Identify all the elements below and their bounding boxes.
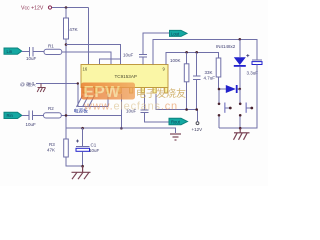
svg-text:10uF: 10uF xyxy=(123,53,134,58)
wire Lout feed xyxy=(142,57,144,65)
junction dot ground left xyxy=(81,165,84,168)
wire pin3 diagonal xyxy=(89,96,95,108)
junction dot ground rail xyxy=(239,127,242,130)
capacitor 4.7uF xyxy=(196,52,198,76)
switch SW1 bottom wire xyxy=(218,117,220,129)
terminal +12V xyxy=(196,122,199,125)
svg-text:3.3uF: 3.3uF xyxy=(247,71,259,76)
wire 100K bottom xyxy=(186,82,188,110)
resistor R3 xyxy=(64,139,69,157)
resistor R3 lead top xyxy=(65,128,67,139)
wire pin9 xyxy=(166,52,219,64)
junction dot diodes xyxy=(239,88,242,91)
resistor R2 xyxy=(44,113,62,118)
junction dot R2/47K xyxy=(65,114,68,117)
wire pin10 to right rail xyxy=(153,39,257,64)
wire 4.7uF bottom xyxy=(196,79,198,109)
ground head shield xyxy=(37,84,45,93)
svg-text:47K: 47K xyxy=(69,27,78,33)
svg-text:IN4148x2: IN4148x2 xyxy=(216,44,236,49)
capacitor 10uF top xyxy=(139,55,147,57)
junction dot diode1 top xyxy=(239,38,242,41)
connector mic input 2 xyxy=(4,112,22,118)
wire R2 to pin4 xyxy=(61,114,121,116)
svg-text:EPW: EPW xyxy=(84,84,121,101)
switch SW2 stem xyxy=(246,107,251,109)
wire Vcc down to pin16 xyxy=(88,8,90,65)
wire pin3 down xyxy=(107,94,109,107)
wire D1 bottom xyxy=(239,67,241,103)
svg-text:R1: R1 xyxy=(48,44,54,49)
svg-text:33K: 33K xyxy=(205,70,213,75)
connector out xyxy=(169,118,188,124)
wire cap to R1 xyxy=(33,51,44,53)
ground earth symbol xyxy=(170,134,181,140)
connector mic input 1 xyxy=(4,48,22,54)
junction dot 47K/branch xyxy=(65,43,68,46)
wire cap to Lout connector xyxy=(143,33,170,55)
junction dot head corner xyxy=(77,82,79,84)
capacitor 3.3uF xyxy=(252,59,262,61)
watermark EPW logo block xyxy=(81,83,135,102)
svg-text:Lout: Lout xyxy=(171,31,180,36)
capacitor C1 electrolytic xyxy=(76,145,90,147)
ground bus wire xyxy=(66,128,175,133)
capacitor C1 lead xyxy=(82,128,84,146)
switch SW1 contacts xyxy=(218,103,221,106)
resistor R1 xyxy=(44,49,62,54)
wire D2 to junction xyxy=(238,88,240,90)
svg-text:10uF: 10uF xyxy=(26,122,37,127)
svg-text:Rout: Rout xyxy=(171,120,181,125)
wire right rail down xyxy=(219,64,257,128)
terminal Vcc xyxy=(48,6,51,9)
svg-text:C1: C1 xyxy=(91,143,97,148)
capacitor 3.3uF plus sign xyxy=(246,54,249,57)
capacitor 10uF input1 xyxy=(29,47,33,57)
svg-text:www.elecfans.cn: www.elecfans.cn xyxy=(83,101,178,113)
junction dot 100K bottom xyxy=(185,108,188,111)
svg-text:@ 磁头: @ 磁头 xyxy=(20,81,36,88)
IC U1 TC9153AP xyxy=(81,65,168,88)
junction dot C1 top xyxy=(81,127,84,130)
diode D1 vertical xyxy=(239,39,241,57)
resistor 100K xyxy=(186,52,188,64)
junction dot 100K xyxy=(185,51,188,54)
junction dot 4.7uF xyxy=(195,51,198,54)
wire pin6 down xyxy=(144,94,146,110)
svg-text:R2: R2 xyxy=(48,106,54,111)
junction dot pin4/ground bus xyxy=(120,127,123,130)
svg-text:10uF: 10uF xyxy=(89,148,100,153)
wire cap to R2 xyxy=(33,114,44,116)
wire C1 bottom xyxy=(82,151,84,166)
capacitor 10uF below IC xyxy=(141,110,149,113)
svg-text:电子发烧友: 电子发烧友 xyxy=(136,87,186,100)
capacitor 10uF input2 xyxy=(29,111,33,121)
svg-text:Lin: Lin xyxy=(7,49,13,54)
wire pin15 jog xyxy=(100,59,121,65)
svg-text:Vcc +12V: Vcc +12V xyxy=(21,6,44,12)
svg-text:10uF: 10uF xyxy=(26,56,37,61)
wire pin7 to +12V xyxy=(156,94,197,122)
svg-text:+12V: +12V xyxy=(192,127,203,132)
svg-text:Rin: Rin xyxy=(7,113,14,118)
diode D2 horizontal xyxy=(226,85,238,93)
wire pin1 diagonal xyxy=(77,96,83,108)
ground C1 xyxy=(72,166,91,179)
wire branch to pin13 xyxy=(66,45,121,65)
pin stubs bottom xyxy=(83,88,168,94)
wire input2 to cap xyxy=(22,114,29,116)
wire cap to out connector xyxy=(145,113,170,122)
svg-text:100K: 100K xyxy=(170,58,181,63)
wire pin4 down xyxy=(120,94,122,128)
junction dot 4.7uF bottom xyxy=(195,108,198,111)
switch SW2 bottom wire xyxy=(239,117,241,129)
switch SW2 contacts xyxy=(239,103,242,106)
resistor 47K xyxy=(64,18,69,39)
svg-text:R3: R3 xyxy=(49,142,55,147)
wire input1 to cap xyxy=(22,51,29,53)
switch SW2 top wire xyxy=(239,89,241,103)
wire head shield xyxy=(36,84,108,107)
switch SW1 top wire xyxy=(218,89,220,103)
resistor 47K top lead xyxy=(65,8,67,19)
resistor 33K xyxy=(216,58,221,77)
wire pin2 diagonal xyxy=(83,96,89,108)
svg-text:TC9153AP: TC9153AP xyxy=(115,74,137,79)
svg-text:16: 16 xyxy=(83,67,88,72)
wire 47K bottom long vertical xyxy=(65,39,67,128)
wire 33K bottom xyxy=(219,77,226,89)
junction dot Vcc/47K xyxy=(65,6,68,9)
svg-text:4.7uF: 4.7uF xyxy=(204,76,216,81)
wire Vcc top xyxy=(52,7,89,9)
junction dot 33K/D2/SW1 xyxy=(218,88,221,91)
connector Lout xyxy=(170,30,188,36)
wire R1 to pin14 xyxy=(62,52,111,64)
switch SW2 bar xyxy=(245,103,247,113)
switch SW1 bar xyxy=(224,103,226,113)
capacitor C1 plus xyxy=(76,140,79,143)
svg-text:47K: 47K xyxy=(47,148,55,153)
switch SW1 stem xyxy=(225,107,230,109)
wire R3 bottom xyxy=(66,157,83,166)
ground switches xyxy=(234,128,250,140)
